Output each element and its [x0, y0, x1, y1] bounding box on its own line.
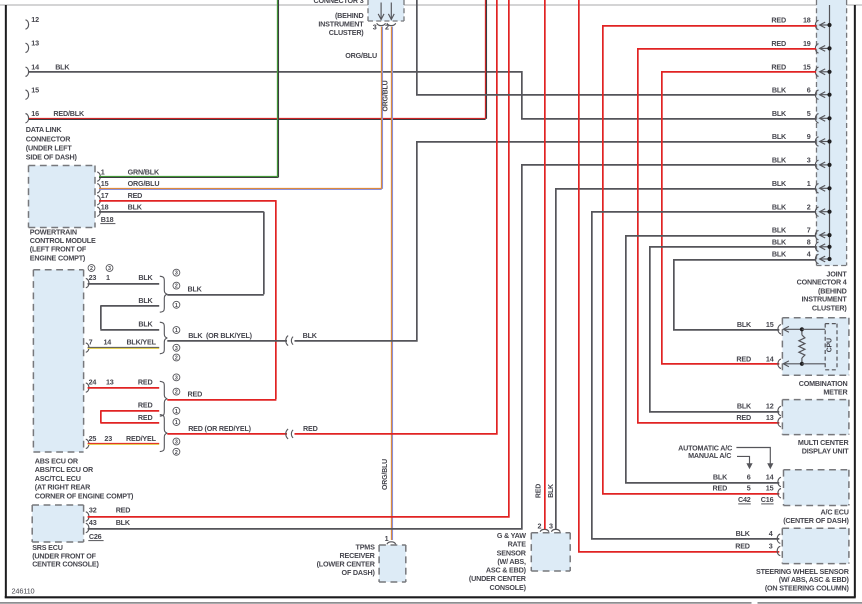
joint connector 4 caption [797, 269, 848, 312]
svg-text:CONSOLE): CONSOLE) [489, 583, 526, 592]
svg-text:13: 13 [31, 39, 39, 48]
svg-text:(UNDER LEFT: (UNDER LEFT [26, 143, 73, 152]
data link connector pin 15 [26, 85, 40, 99]
svg-text:BLK: BLK [737, 320, 752, 329]
svg-text:CENTER CONSOLE): CENTER CONSOLE) [32, 560, 99, 569]
in-line connector on BLK wire [286, 336, 288, 346]
ABS pin 23/1 BLK wire [86, 273, 159, 288]
svg-text:3: 3 [769, 542, 773, 551]
TPMS pin 1 terminal [385, 534, 396, 544]
svg-text:17: 17 [101, 191, 109, 200]
svg-text:BLK: BLK [713, 473, 728, 482]
svg-text:RED/BLK: RED/BLK [53, 109, 85, 118]
svg-text:14: 14 [766, 354, 774, 363]
joint connector 4 internal bus [829, 5, 831, 259]
svg-text:INSTRUMENT: INSTRUMENT [801, 295, 847, 304]
brace group BLK wires 3-4 [160, 322, 253, 361]
svg-text:RED: RED [736, 413, 751, 422]
svg-text:RED/YEL: RED/YEL [126, 434, 157, 443]
svg-text:RED: RED [713, 483, 728, 492]
svg-text:SIDE OF DASH): SIDE OF DASH) [26, 153, 78, 162]
svg-text:BLK: BLK [116, 518, 131, 527]
SRS pin 43 BLK wire to joint connector 4 pin 3 [86, 165, 816, 533]
svg-text:BLK: BLK [303, 331, 318, 340]
joint connector 4 pin 1 (BLK) [772, 179, 832, 193]
svg-text:BLK/YEL: BLK/YEL [126, 338, 156, 347]
meter internal resistor [799, 329, 805, 364]
svg-text:6: 6 [807, 85, 811, 94]
wire BLK: multi center display to joint connector 4 pin 8 [650, 247, 816, 412]
data link connector caption [26, 125, 78, 161]
steering wheel sensor caption [756, 567, 850, 593]
meter pin 14 (RED) [736, 354, 801, 368]
meter CPU block [802, 324, 837, 370]
svg-text:BLK: BLK [548, 484, 555, 498]
svg-text:CPU: CPU [827, 338, 834, 352]
wire BLK from off-page top to joint connector 4 pin 6 [417, 0, 816, 95]
svg-text:7: 7 [807, 226, 811, 235]
multi center display unit box [782, 400, 849, 435]
svg-text:ORG/BLU: ORG/BLU [382, 459, 389, 490]
svg-text:15: 15 [31, 85, 39, 94]
svg-text:246110: 246110 [12, 586, 35, 595]
joint connector 3 internal arrow pin 2 [390, 3, 392, 20]
ABS pin 24/13 RED wire [86, 378, 159, 393]
svg-text:15: 15 [803, 62, 811, 71]
svg-text:18: 18 [101, 203, 109, 212]
svg-text:ORG/BLU: ORG/BLU [128, 179, 160, 188]
svg-text:2: 2 [385, 22, 389, 31]
G and yaw rate sensor box [531, 533, 570, 571]
RED loop wire 7 [100, 413, 159, 423]
data link connector pin 13 [26, 39, 40, 53]
connector id C26 [88, 532, 103, 541]
A/C pin row BLK 6 / 14 [713, 473, 781, 487]
svg-text:CLUSTER): CLUSTER) [812, 304, 848, 313]
joint connector 4 pin 3 (BLK) [772, 156, 832, 170]
svg-text:ABS/TCL ECU OR: ABS/TCL ECU OR [35, 465, 94, 474]
joint connector 4 pin 8 (BLK) [772, 237, 832, 251]
PCM pin 17 (RED) [97, 191, 142, 205]
joint connector 3 box (cropped at top) [368, 0, 404, 21]
svg-text:BLK: BLK [128, 203, 143, 212]
svg-text:12: 12 [766, 402, 774, 411]
svg-text:14: 14 [31, 63, 39, 72]
svg-text:RED: RED [736, 354, 751, 363]
wire BLK: combination meter to joint connector 4 pin 4 [674, 260, 816, 330]
svg-text:RED: RED [771, 16, 786, 25]
svg-text:CONTROL MODULE: CONTROL MODULE [30, 236, 96, 245]
svg-text:OF DASH): OF DASH) [342, 568, 376, 577]
svg-text:ORG/BLU: ORG/BLU [382, 80, 389, 111]
svg-text:(W/ ABS,: (W/ ABS, [497, 557, 526, 566]
brace group BLK wires 1-2 [160, 269, 203, 312]
svg-text:GRN/BLK: GRN/BLK [128, 167, 160, 176]
A/C pin row RED 5 / 15 [713, 483, 781, 498]
svg-text:3: 3 [175, 271, 178, 277]
svg-text:(CENTER OF DASH): (CENTER OF DASH) [783, 516, 849, 525]
svg-text:DISPLAY UNIT: DISPLAY UNIT [802, 446, 850, 455]
svg-text:1: 1 [807, 179, 811, 188]
wire BLK: G sensor pin 3 up to joint connector 4 pin 1 [556, 189, 816, 529]
svg-text:32: 32 [89, 505, 97, 514]
svg-text:3: 3 [373, 22, 377, 31]
svg-text:1: 1 [175, 303, 178, 309]
display pin 12 (BLK) [737, 402, 781, 416]
wire RED: combination meter to joint connector 4 pin 15 [662, 72, 816, 364]
meter resistor junction dots [800, 327, 804, 366]
svg-text:1: 1 [385, 534, 389, 543]
svg-text:15: 15 [766, 483, 774, 492]
svg-text:ORG/BLU: ORG/BLU [345, 51, 377, 60]
joint connector 4 pin 7 (BLK) [772, 226, 832, 240]
svg-text:BLK: BLK [138, 273, 153, 282]
next-page separator line [0, 602, 862, 604]
multi center display caption [798, 438, 850, 455]
svg-text:13: 13 [766, 413, 774, 422]
svg-text:2: 2 [537, 522, 541, 531]
svg-text:12: 12 [31, 15, 39, 24]
wire RED: G sensor pin 2 up off-page [544, 0, 546, 529]
svg-text:ABS ECU OR: ABS ECU OR [35, 457, 79, 466]
joint connector 4 pin 4 (BLK) [772, 250, 832, 264]
svg-text:BLK: BLK [772, 250, 787, 259]
svg-text:BLK: BLK [737, 402, 752, 411]
ABS pin 25/23 RED/YEL wire [86, 434, 159, 449]
brace group RED wires 5-6 [160, 374, 202, 416]
svg-text:2: 2 [175, 450, 178, 456]
svg-text:BLK: BLK [772, 132, 787, 141]
svg-text:25: 25 [89, 434, 97, 443]
svg-text:2: 2 [175, 284, 178, 290]
joint connector 4 pin 9 (BLK) [772, 132, 832, 146]
wire ORG/BLU: joint connector 3 pin 2 down to TPMS receiver pin 1 [390, 27, 392, 540]
joint connector 4 pin 19 (RED) [771, 39, 831, 53]
svg-text:RED: RED [138, 401, 153, 410]
wire BLK: steering wheel sensor to joint connector 4 pin 2 [592, 212, 816, 539]
svg-text:BLK: BLK [736, 529, 751, 538]
label MANUAL A/C with pointer [688, 451, 753, 470]
svg-text:4: 4 [807, 250, 811, 259]
svg-text:15: 15 [101, 179, 109, 188]
svg-text:DATA LINK: DATA LINK [26, 125, 63, 134]
ABS ECU caption [35, 457, 134, 501]
svg-text:8: 8 [807, 237, 811, 246]
RED loop vertical [100, 411, 102, 423]
brace group RED wires 7-8 [160, 407, 252, 455]
A/C ECU box [784, 470, 849, 506]
meter pin 15 (BLK) [737, 320, 802, 334]
svg-text:BLK: BLK [55, 62, 70, 71]
BLK loop wire 2 [100, 296, 159, 306]
G sensor pin 2 terminal [537, 522, 548, 532]
SRS ECU box [32, 505, 83, 542]
svg-text:2: 2 [175, 390, 178, 396]
combined wire RED to PCM pin17 branch [167, 399, 276, 401]
svg-text:1: 1 [175, 409, 178, 415]
wire RED/BLK: DLC pin16 right then up off-page [29, 0, 486, 119]
wire BLK: DLC pin14 to joint connector 4 pin 5 (jog at x=521.5) [29, 72, 816, 119]
svg-text:(LEFT FRONT OF: (LEFT FRONT OF [30, 245, 87, 254]
joint connector 4 pin 2 (BLK) [772, 202, 832, 216]
connector ids C42 and C16 [738, 495, 774, 504]
joint connector 4 pin 18 (RED) [771, 16, 831, 30]
wire RED: PCM pin17 right then down to ABS red group [99, 200, 276, 399]
BLK loop vertical [100, 306, 102, 329]
wire ORG/BLU: PCM pin15 right then up to joint connector 3 pin 3 [99, 27, 382, 190]
svg-text:3: 3 [549, 522, 553, 531]
joint connector 4 pin 5 (BLK) [772, 109, 832, 123]
svg-text:CLUSTER): CLUSTER) [329, 28, 365, 37]
svg-text:BLK: BLK [772, 109, 787, 118]
svg-text:5: 5 [807, 109, 811, 118]
svg-text:14: 14 [104, 338, 112, 347]
joint connector 3 caption (top line cropped) [314, 0, 365, 37]
svg-text:RED: RED [735, 542, 750, 551]
svg-text:23: 23 [104, 434, 112, 443]
svg-text:MANUAL A/C: MANUAL A/C [688, 451, 731, 460]
svg-text:6: 6 [747, 473, 751, 482]
svg-text:1: 1 [175, 420, 178, 426]
svg-text:24: 24 [89, 378, 97, 387]
svg-text:BLK: BLK [188, 285, 203, 294]
svg-text:4: 4 [769, 529, 773, 538]
wire RED: multi center display to joint connector 4 pin 19 [638, 49, 816, 423]
powertrain control module caption [30, 227, 96, 262]
svg-text:1: 1 [175, 328, 178, 334]
joint connector 3 internal arrow pin 3 [380, 3, 382, 20]
data link connector pin 16 [26, 109, 40, 123]
svg-text:1: 1 [101, 167, 105, 176]
wire BLK: PCM pin18 right then down to ABS black group [99, 212, 264, 295]
in-line connector on RED wire [286, 429, 288, 439]
svg-text:RED: RED [116, 505, 131, 514]
svg-text:1: 1 [106, 273, 110, 282]
steering pin 4 (BLK) [736, 529, 781, 543]
svg-text:2: 2 [807, 202, 811, 211]
svg-text:2: 2 [90, 266, 93, 272]
svg-text:16: 16 [31, 109, 39, 118]
combined wire BLK (OR BLK/YEL) left part [167, 340, 287, 342]
svg-text:7: 7 [89, 338, 93, 347]
data link connector pin 14 [26, 63, 40, 77]
SRS pin 32 RED wire to off-page top [86, 0, 509, 521]
svg-text:RED: RED [138, 413, 153, 422]
joint connector 4 pin 15 (RED) [771, 62, 831, 76]
svg-text:METER: METER [823, 388, 848, 397]
joint connector 4 pin 6 (BLK) [772, 85, 832, 99]
steering pin 3 (RED) [735, 542, 780, 556]
svg-text:BLK: BLK [772, 179, 787, 188]
svg-text:RED: RED [771, 39, 786, 48]
svg-text:CONNECTOR 3: CONNECTOR 3 [314, 0, 364, 5]
svg-text:B18: B18 [101, 215, 114, 224]
display pin 13 (RED) [736, 413, 781, 427]
svg-text:13: 13 [106, 378, 114, 387]
svg-text:BLK: BLK [772, 85, 787, 94]
svg-text:(ON STEERING COLUMN): (ON STEERING COLUMN) [765, 584, 850, 593]
joint connector 3 pin 3 terminal [373, 22, 386, 31]
svg-text:CONNECTOR: CONNECTOR [26, 134, 71, 143]
svg-text:2: 2 [175, 356, 178, 362]
svg-text:C42: C42 [738, 495, 751, 504]
SRS ECU caption [32, 543, 99, 568]
wire RED continues up off-page [295, 0, 497, 434]
svg-text:3: 3 [175, 440, 178, 446]
ABS ECU box [33, 270, 83, 452]
svg-text:INSTRUMENT: INSTRUMENT [318, 19, 364, 28]
wire RED: steering wheel sensor up off-page [579, 0, 779, 552]
variant column markers 2 and 3 [88, 265, 113, 272]
svg-text:BLK: BLK [772, 202, 787, 211]
svg-text:3: 3 [175, 346, 178, 352]
svg-text:15: 15 [766, 320, 774, 329]
svg-text:RED: RED [535, 484, 542, 498]
PCM pin 15 (ORG/BLU) [97, 179, 159, 193]
combined wire RED (OR RED/YEL) left part [167, 433, 287, 435]
combination meter box [782, 318, 849, 376]
PCM pin 18 (BLK) [97, 203, 143, 217]
G and yaw rate sensor caption [469, 531, 527, 592]
svg-text:BLK: BLK [138, 319, 153, 328]
wire BLK: A/C ECU to joint connector 4 pin 7 [626, 236, 816, 483]
svg-text:CONNECTOR 4: CONNECTOR 4 [797, 277, 847, 286]
svg-text:RATE: RATE [508, 540, 527, 549]
svg-text:RED: RED [771, 62, 786, 71]
svg-text:C26: C26 [89, 532, 102, 541]
wire BLK continues to joint connector 4 pin 9 [295, 142, 817, 341]
svg-text:RED: RED [128, 191, 143, 200]
svg-text:43: 43 [89, 518, 97, 527]
svg-text:BLK: BLK [772, 226, 787, 235]
combination meter caption [799, 379, 849, 397]
svg-text:9: 9 [807, 132, 811, 141]
data link connector pin 12 [26, 15, 40, 29]
BLK loop wire 3 [100, 319, 159, 330]
TPMS receiver caption [317, 543, 376, 577]
powertrain control module box [29, 166, 96, 228]
svg-text:14: 14 [766, 473, 774, 482]
svg-text:19: 19 [803, 39, 811, 48]
wire RED: A/C ECU to joint connector 4 pin 18 [603, 26, 816, 494]
svg-text:RED: RED [188, 390, 203, 399]
svg-text:3: 3 [175, 375, 178, 381]
joint connector 3 pin 2 terminal [385, 22, 396, 31]
svg-text:ASC/TCL ECU: ASC/TCL ECU [35, 474, 81, 483]
svg-text:BLK (OR BLK/YEL): BLK (OR BLK/YEL) [188, 331, 252, 340]
svg-text:5: 5 [747, 483, 751, 492]
svg-text:C16: C16 [761, 495, 774, 504]
PCM pin 1 (GRN/BLK) [97, 167, 160, 181]
svg-text:(AT RIGHT REAR: (AT RIGHT REAR [35, 483, 91, 492]
ABS pin 7/14 BLK/YEL wire [86, 338, 159, 353]
A/C ECU caption [783, 508, 849, 525]
combined wire BLK to PCM pin18 branch [167, 294, 263, 296]
steering wheel sensor box [782, 528, 849, 563]
svg-text:RED: RED [303, 424, 318, 433]
svg-text:RED (OR RED/YEL): RED (OR RED/YEL) [188, 424, 251, 433]
G sensor pin 3 terminal [549, 522, 560, 532]
svg-text:CORNER OF ENGINE COMPT): CORNER OF ENGINE COMPT) [35, 491, 134, 500]
RED loop wire 6 [100, 401, 159, 411]
wire GRN/BLK: PCM pin1 right then up off-page [99, 0, 278, 177]
svg-text:BLK: BLK [772, 237, 787, 246]
svg-text:3: 3 [807, 156, 811, 165]
svg-text:BLK: BLK [772, 156, 787, 165]
svg-text:18: 18 [803, 16, 811, 25]
TPMS receiver box [379, 545, 406, 582]
svg-text:3: 3 [108, 266, 111, 272]
svg-text:BLK: BLK [138, 296, 153, 305]
svg-text:ENGINE COMPT): ENGINE COMPT) [30, 253, 86, 262]
svg-text:23: 23 [89, 273, 97, 282]
connector id B18 [100, 215, 115, 224]
label AUTOMATIC A/C with pointer [678, 443, 773, 469]
joint connector 4 box (cropped at top) [817, 0, 847, 266]
svg-text:RED: RED [138, 378, 153, 387]
